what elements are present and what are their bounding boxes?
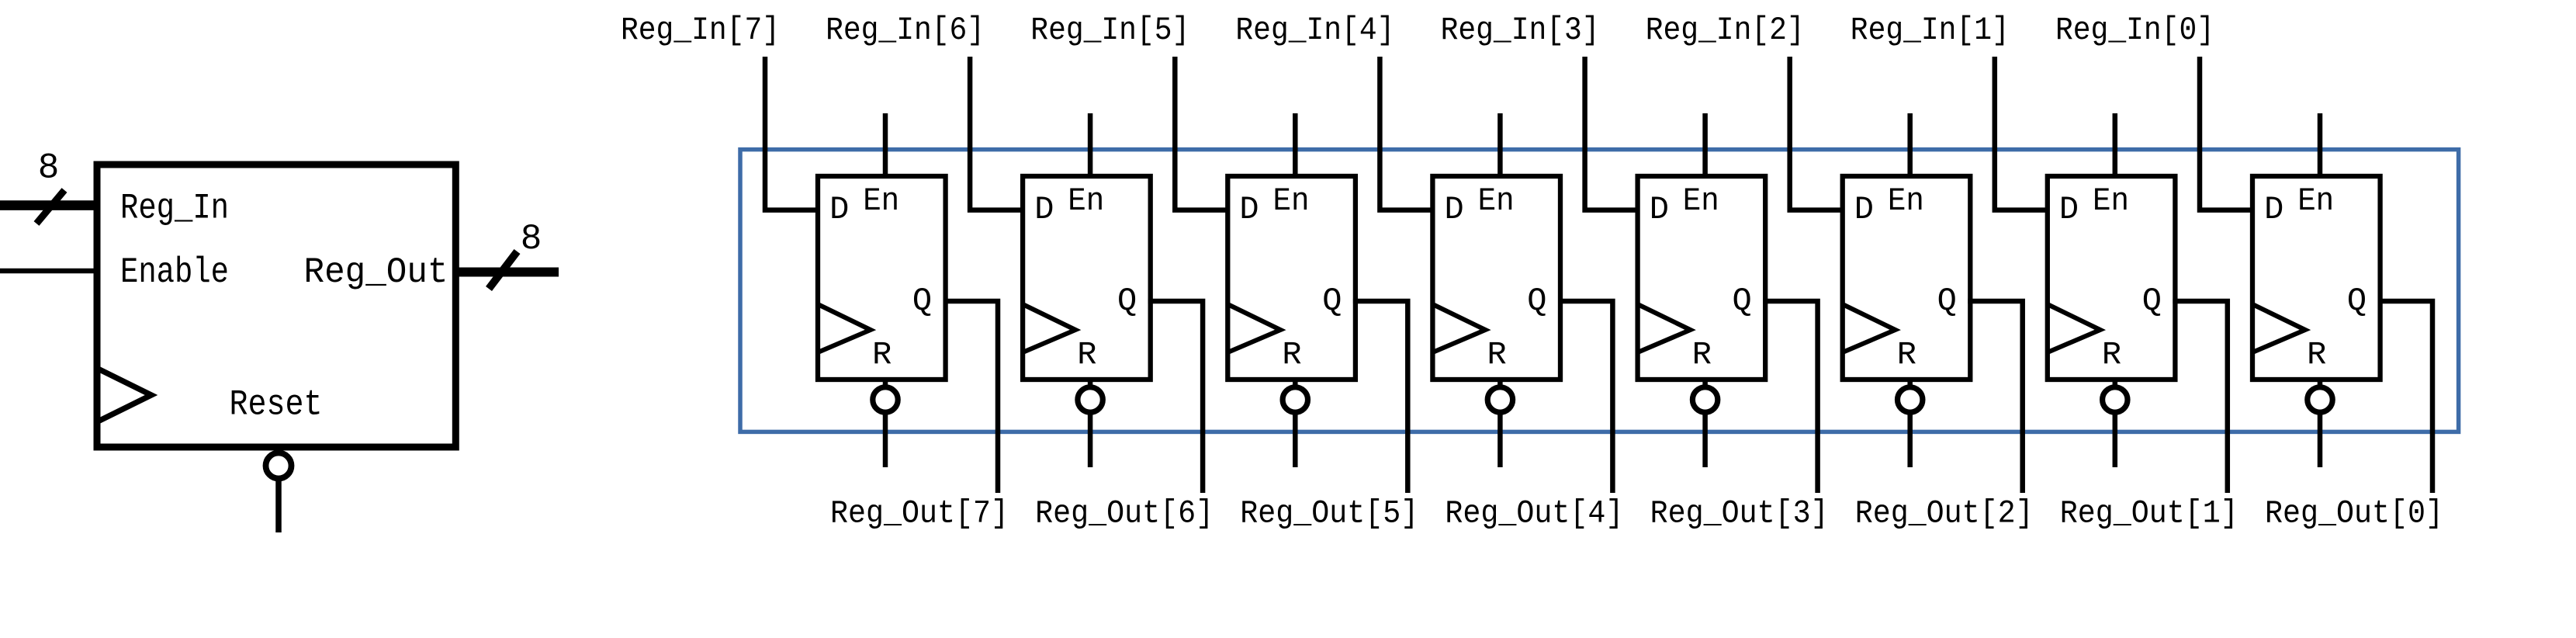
wire U2 Q to Reg_Out[6] (1148, 301, 1203, 493)
wire U8 Q to Reg_Out[0] (2378, 301, 2432, 493)
flip-flop U2 body (1023, 176, 1151, 380)
U3 clock edge triangle (1227, 304, 1280, 352)
svg-text:R: R (2102, 336, 2121, 373)
flip-flop U1 body (818, 176, 946, 380)
wire U5 Q to Reg_Out[3] (1763, 301, 1817, 493)
svg-text:En: En (2297, 182, 2334, 220)
wire Enable to En pin of U5 (1702, 113, 1708, 179)
svg-text:R: R (1487, 336, 1506, 373)
wire Reg_In[2] to D input of U6 (1790, 57, 1845, 210)
U0 reset bubble (active low) (266, 453, 292, 479)
wire Enable input (0, 269, 97, 274)
svg-text:8: 8 (38, 148, 60, 189)
svg-text:D: D (1034, 191, 1054, 228)
wire Enable to En pin of U1 (883, 113, 888, 179)
wire Reg_In[5] to D input of U3 (1175, 57, 1230, 210)
svg-text:Reg_In[3]: Reg_In[3] (1441, 12, 1600, 49)
svg-text:Reset: Reset (230, 385, 323, 425)
svg-text:Reg_In[1]: Reg_In[1] (1851, 12, 2010, 49)
svg-text:Q: Q (1937, 283, 1957, 320)
wire Enable to En pin of U7 (2113, 113, 2118, 179)
svg-text:Q: Q (1117, 283, 1137, 320)
wire Reg_In[3] to D input of U5 (1585, 57, 1640, 210)
svg-text:R: R (1897, 336, 1916, 373)
wire U2 R pin stub (1088, 378, 1093, 467)
U8 clock edge triangle (2252, 304, 2305, 352)
wire Reg_In bus (8-bit) (0, 200, 97, 210)
bus-width slash on Reg_Out (489, 251, 518, 289)
svg-text:D: D (2059, 191, 2079, 228)
wire U3 Q to Reg_Out[5] (1353, 301, 1407, 493)
svg-text:Reg_In[7]: Reg_In[7] (621, 12, 780, 49)
wire Enable to En pin of U2 (1088, 113, 1093, 179)
wire Enable to En pin of U6 (1907, 113, 1913, 179)
U5 reset bubble (active low) (1692, 387, 1717, 412)
svg-text:Enable: Enable (120, 252, 229, 293)
svg-text:En: En (2093, 182, 2129, 220)
svg-text:En: En (1478, 182, 1515, 220)
wire Reg_In[7] to D input of U1 (765, 57, 820, 210)
wire U3 R pin stub (1293, 378, 1298, 467)
svg-text:En: En (1068, 182, 1104, 220)
wire U7 R pin stub (2113, 378, 2118, 467)
svg-text:Q: Q (2142, 283, 2162, 320)
U4 reset bubble (active low) (1487, 387, 1512, 412)
svg-text:Reg_In[6]: Reg_In[6] (826, 12, 985, 49)
wire U5 R pin stub (1702, 378, 1708, 467)
flip-flop U7 body (2048, 176, 2176, 380)
svg-text:D: D (1444, 191, 1463, 228)
svg-text:R: R (1282, 336, 1301, 373)
svg-text:Reg_Out[5]: Reg_Out[5] (1240, 495, 1418, 532)
U1 clock edge triangle (818, 304, 871, 352)
svg-text:D: D (1650, 191, 1669, 228)
svg-text:Q: Q (1322, 283, 1342, 320)
wire Enable to En pin of U4 (1497, 113, 1503, 179)
svg-text:D: D (829, 191, 849, 228)
svg-text:Reg_Out[2]: Reg_Out[2] (1855, 495, 2034, 532)
svg-text:D: D (2264, 191, 2283, 228)
wire U6 R pin stub (1907, 378, 1913, 467)
svg-text:En: En (1888, 182, 1924, 220)
flip-flop U8 body (2252, 176, 2380, 380)
svg-text:Reg_Out[3]: Reg_Out[3] (1650, 495, 1829, 532)
svg-text:Reg_In: Reg_In (120, 189, 229, 229)
U1 reset bubble (active low) (873, 387, 898, 412)
wire Reg_In[4] to D input of U4 (1380, 57, 1435, 210)
svg-text:8: 8 (521, 219, 542, 259)
svg-text:Q: Q (2347, 283, 2367, 320)
U6 reset bubble (active low) (1898, 387, 1923, 412)
svg-text:Reg_In[5]: Reg_In[5] (1030, 12, 1189, 49)
wire U6 Q to Reg_Out[2] (1968, 301, 2022, 493)
svg-text:R: R (1692, 336, 1712, 373)
wire U1 Q to Reg_Out[7] (943, 301, 998, 493)
bus-width slash on Reg_In (36, 190, 64, 224)
svg-text:Reg_Out: Reg_Out (304, 252, 448, 293)
wire U7 Q to Reg_Out[1] (2173, 301, 2227, 493)
wire U1 R pin stub (883, 378, 888, 467)
U7 clock edge triangle (2048, 304, 2100, 352)
flip-flop U4 body (1432, 176, 1560, 380)
svg-text:R: R (1077, 336, 1096, 373)
wire Reg_In[0] to D input of U8 (2200, 57, 2255, 210)
U4 clock edge triangle (1432, 304, 1485, 352)
wire U4 R pin stub (1497, 378, 1503, 467)
U0 clock edge triangle (97, 369, 151, 422)
U7 reset bubble (active low) (2103, 387, 2128, 412)
flip-flop U5 body (1638, 176, 1766, 380)
register block U0 body (97, 165, 455, 447)
svg-text:Q: Q (912, 283, 932, 320)
svg-text:Reg_In[0]: Reg_In[0] (2055, 12, 2214, 49)
wire Reg_Out bus (8-bit) (456, 268, 559, 277)
svg-text:Q: Q (1732, 283, 1751, 320)
wire U0 Reset stub (275, 445, 282, 532)
svg-text:Reg_In[4]: Reg_In[4] (1235, 12, 1394, 49)
expanded register grouping box (740, 150, 2459, 432)
U2 clock edge triangle (1023, 304, 1075, 352)
svg-text:Reg_In[2]: Reg_In[2] (1646, 12, 1805, 49)
svg-text:D: D (1854, 191, 1874, 228)
svg-text:D: D (1239, 191, 1259, 228)
svg-text:En: En (863, 182, 899, 220)
svg-text:Q: Q (1527, 283, 1546, 320)
wire Enable to En pin of U3 (1293, 113, 1298, 179)
U8 reset bubble (active low) (2308, 387, 2332, 412)
wire U8 R pin stub (2318, 378, 2323, 467)
U2 reset bubble (active low) (1078, 387, 1103, 412)
svg-text:Reg_Out[4]: Reg_Out[4] (1445, 495, 1623, 532)
svg-text:En: En (1683, 182, 1719, 220)
wire Reg_In[6] to D input of U2 (970, 57, 1025, 210)
wire Enable to En pin of U8 (2318, 113, 2323, 179)
svg-text:R: R (872, 336, 892, 373)
flip-flop U3 body (1227, 176, 1356, 380)
wire U4 Q to Reg_Out[4] (1558, 301, 1612, 493)
wire Reg_In[1] to D input of U7 (1995, 57, 2050, 210)
U5 clock edge triangle (1638, 304, 1691, 352)
svg-text:En: En (1273, 182, 1310, 220)
svg-text:Reg_Out[6]: Reg_Out[6] (1035, 495, 1214, 532)
svg-text:Reg_Out[7]: Reg_Out[7] (830, 495, 1009, 532)
U6 clock edge triangle (1843, 304, 1896, 352)
U3 reset bubble (active low) (1283, 387, 1307, 412)
flip-flop U6 body (1843, 176, 1971, 380)
svg-text:R: R (2307, 336, 2326, 373)
svg-text:Reg_Out[1]: Reg_Out[1] (2060, 495, 2238, 532)
svg-text:Reg_Out[0]: Reg_Out[0] (2265, 495, 2443, 532)
